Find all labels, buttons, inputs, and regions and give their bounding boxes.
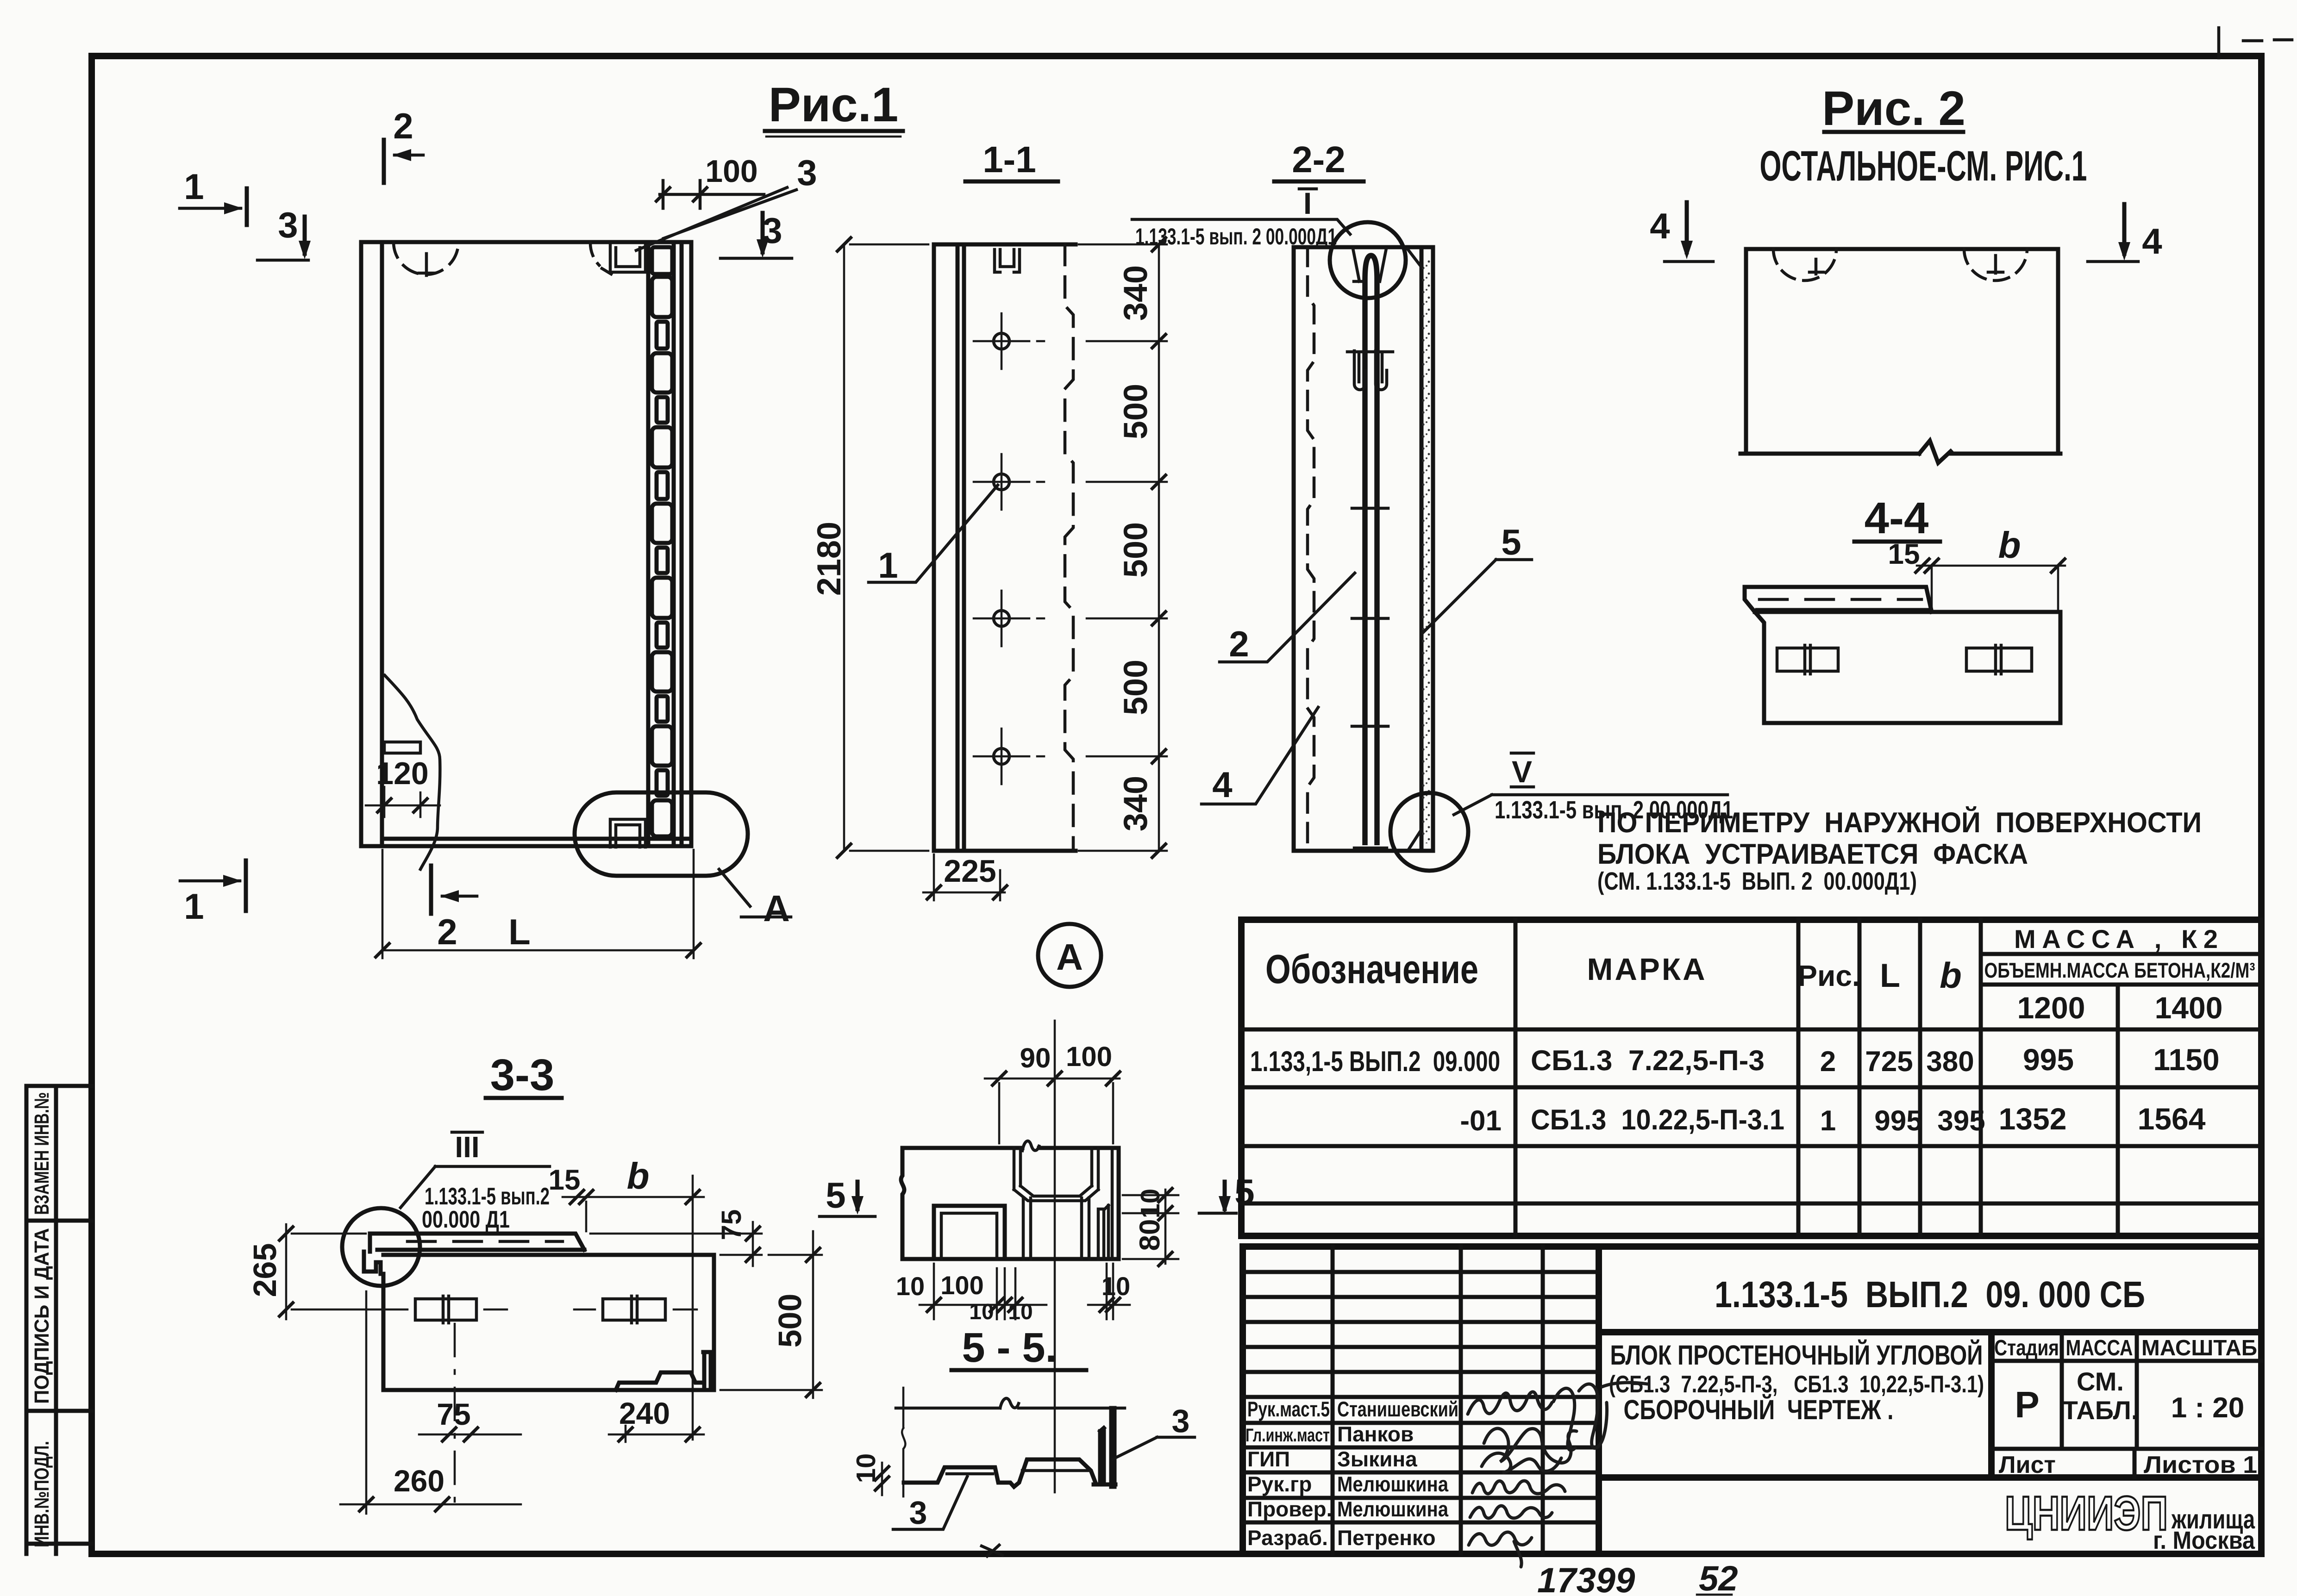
svg-text:1: 1 bbox=[184, 166, 204, 207]
svg-text:1: 1 bbox=[878, 545, 898, 586]
svg-text:3: 3 bbox=[909, 1495, 927, 1531]
svg-text:ТАБЛ.: ТАБЛ. bbox=[2062, 1396, 2139, 1425]
svg-text:500: 500 bbox=[772, 1294, 808, 1348]
svg-text:Станишевский: Станишевский bbox=[1337, 1397, 1458, 1421]
svg-text:10: 10 bbox=[896, 1272, 925, 1301]
svg-text:1.133,1-5 ВЫП.2 09.000: 1.133,1-5 ВЫП.2 09.000 bbox=[1250, 1046, 1500, 1078]
svg-text:100: 100 bbox=[1066, 1041, 1112, 1072]
svg-text:100: 100 bbox=[705, 154, 757, 189]
svg-text:Стадия: Стадия bbox=[1994, 1336, 2059, 1360]
svg-text:Мелюшкина: Мелюшкина bbox=[1337, 1497, 1448, 1521]
svg-text:Провер.: Провер. bbox=[1247, 1497, 1332, 1521]
svg-text:2-2: 2-2 bbox=[1292, 139, 1346, 180]
svg-text:3: 3 bbox=[1172, 1403, 1190, 1439]
svg-text:2: 2 bbox=[437, 911, 457, 952]
svg-text:15: 15 bbox=[1888, 538, 1920, 570]
svg-text:380: 380 bbox=[1926, 1046, 1974, 1078]
svg-text:Петренко: Петренко bbox=[1337, 1526, 1436, 1550]
svg-text:225: 225 bbox=[944, 854, 996, 889]
svg-text:4: 4 bbox=[1212, 764, 1232, 805]
svg-text:1400: 1400 bbox=[2155, 991, 2223, 1025]
svg-text:L: L bbox=[508, 911, 531, 952]
svg-text:ИНВ.№ПОДЛ.: ИНВ.№ПОДЛ. bbox=[31, 1441, 53, 1547]
svg-text:Рук.гр: Рук.гр bbox=[1247, 1472, 1312, 1496]
svg-text:90: 90 bbox=[1020, 1042, 1051, 1073]
svg-text:1: 1 bbox=[1820, 1105, 1836, 1137]
svg-text:Панков: Панков bbox=[1337, 1422, 1414, 1446]
svg-text:СМ.: СМ. bbox=[2077, 1367, 2124, 1396]
svg-text:2: 2 bbox=[1229, 623, 1249, 664]
svg-text:15: 15 bbox=[549, 1164, 581, 1196]
svg-text:5 - 5.: 5 - 5. bbox=[962, 1325, 1057, 1371]
svg-text:1-1: 1-1 bbox=[983, 139, 1036, 180]
svg-text:Рис. 2: Рис. 2 bbox=[1822, 81, 1965, 136]
svg-text:2: 2 bbox=[1820, 1046, 1836, 1078]
svg-text:А: А bbox=[1056, 936, 1083, 978]
svg-text:340: 340 bbox=[1117, 265, 1154, 321]
svg-text:Мелюшкина: Мелюшкина bbox=[1337, 1472, 1448, 1496]
svg-text:Зыкина: Зыкина bbox=[1337, 1447, 1417, 1471]
svg-text:Лист: Лист bbox=[1999, 1452, 2056, 1478]
svg-text:Рис.: Рис. bbox=[1797, 959, 1860, 992]
svg-text:10: 10 bbox=[1008, 1300, 1033, 1324]
svg-text:725: 725 bbox=[1865, 1046, 1913, 1078]
svg-text:-01: -01 bbox=[1460, 1105, 1502, 1137]
svg-text:4: 4 bbox=[1650, 206, 1670, 246]
svg-text:1: 1 bbox=[184, 886, 204, 927]
svg-text:2: 2 bbox=[393, 106, 413, 146]
svg-text:500: 500 bbox=[1117, 660, 1154, 715]
svg-text:МАССА , К2: МАССА , К2 bbox=[2014, 924, 2218, 954]
svg-text:1200: 1200 bbox=[2017, 991, 2085, 1025]
svg-text:b: b bbox=[1940, 955, 1962, 996]
svg-text:52: 52 bbox=[1699, 1559, 1738, 1596]
svg-text:260: 260 bbox=[394, 1464, 444, 1498]
svg-text:(СМ. 1.133.1-5 ВЫП. 2 00.000: (СМ. 1.133.1-5 ВЫП. 2 00.000Д1) bbox=[1597, 867, 1917, 895]
svg-text:500: 500 bbox=[1117, 522, 1154, 578]
svg-text:240: 240 bbox=[619, 1396, 670, 1430]
svg-text:3-3: 3-3 bbox=[490, 1050, 555, 1100]
svg-text:100: 100 bbox=[940, 1271, 983, 1300]
svg-text:ПОДПИСЬ И ДАТА: ПОДПИСЬ И ДАТА bbox=[31, 1228, 53, 1404]
svg-text:ОСТАЛЬНОЕ-СМ. РИС.1: ОСТАЛЬНОЕ-СМ. РИС.1 bbox=[1760, 143, 2087, 190]
svg-text:b: b bbox=[627, 1155, 650, 1197]
svg-text:2180: 2180 bbox=[811, 522, 848, 596]
svg-text:265: 265 bbox=[247, 1243, 283, 1297]
svg-text:3: 3 bbox=[278, 205, 298, 245]
svg-text:БЛОК ПРОСТЕНОЧНЫЙ УГЛОВОЙ: БЛОК ПРОСТЕНОЧНЫЙ УГЛОВОЙ bbox=[1610, 1339, 1983, 1371]
svg-text:3: 3 bbox=[797, 152, 817, 193]
svg-text:ГИП: ГИП bbox=[1247, 1447, 1290, 1471]
svg-text:Листов 1: Листов 1 bbox=[2144, 1452, 2257, 1478]
svg-text:1 : 20: 1 : 20 bbox=[2171, 1392, 2245, 1424]
svg-text:17399: 17399 bbox=[1537, 1561, 1635, 1596]
svg-text:СБ1.3 10.22,5-П-3.1: СБ1.3 10.22,5-П-3.1 bbox=[1531, 1104, 1784, 1136]
svg-text:995: 995 bbox=[2023, 1042, 2074, 1077]
svg-text:5: 5 bbox=[826, 1175, 845, 1216]
svg-text:b: b bbox=[1998, 524, 2021, 566]
svg-text:00.000 Д1: 00.000 Д1 bbox=[422, 1206, 510, 1233]
svg-text:75: 75 bbox=[437, 1397, 470, 1431]
svg-text:120: 120 bbox=[376, 756, 428, 791]
svg-text:1352: 1352 bbox=[1999, 1102, 2067, 1136]
svg-text:1150: 1150 bbox=[2153, 1042, 2219, 1077]
svg-text:1564: 1564 bbox=[2138, 1102, 2206, 1136]
svg-text:Р: Р bbox=[2015, 1384, 2039, 1425]
svg-text:10: 10 bbox=[1135, 1189, 1165, 1219]
svg-text:500: 500 bbox=[1117, 384, 1154, 439]
svg-text:СБОРОЧНЫЙ ЧЕРТЕЖ .: СБОРОЧНЫЙ ЧЕРТЕЖ . bbox=[1624, 1394, 1894, 1425]
svg-text:СБ1.3 7.22,5-П-3: СБ1.3 7.22,5-П-3 bbox=[1531, 1045, 1765, 1077]
svg-text:ЦНИИЭП: ЦНИИЭП bbox=[2005, 1487, 2168, 1540]
svg-text:г. Москва: г. Москва bbox=[2153, 1527, 2255, 1554]
svg-text:L: L bbox=[1880, 957, 1900, 994]
svg-text:4-4: 4-4 bbox=[1865, 493, 1929, 543]
svg-text:I: I bbox=[1303, 186, 1312, 220]
svg-text:Разраб.: Разраб. bbox=[1247, 1526, 1328, 1550]
svg-text:V: V bbox=[1512, 754, 1532, 789]
svg-text:340: 340 bbox=[1117, 776, 1154, 831]
svg-text:Рук.маст.5: Рук.маст.5 bbox=[1247, 1397, 1330, 1421]
svg-text:5: 5 bbox=[1501, 522, 1521, 562]
svg-text:75: 75 bbox=[716, 1209, 747, 1241]
svg-text:10: 10 bbox=[851, 1453, 881, 1484]
svg-text:А: А bbox=[763, 888, 790, 929]
svg-text:1.133.1-5 ВЫП.2 09. 000 СБ: 1.133.1-5 ВЫП.2 09. 000 СБ bbox=[1715, 1274, 2145, 1315]
svg-text:III: III bbox=[455, 1130, 479, 1164]
svg-text:МАСШТАБ: МАСШТАБ bbox=[2141, 1336, 2257, 1360]
svg-text:4: 4 bbox=[2142, 221, 2162, 262]
svg-text:ПО ПЕРИМЕТРУ НАРУЖНОЙ ПОВЕРХ: ПО ПЕРИМЕТРУ НАРУЖНОЙ ПОВЕРХНОСТИ bbox=[1597, 806, 2202, 839]
svg-text:Обозначение: Обозначение bbox=[1265, 946, 1478, 992]
svg-text:МАРКА: МАРКА bbox=[1587, 952, 1705, 987]
svg-text:БЛОКА УСТРАИВАЕТСЯ ФАСКА: БЛОКА УСТРАИВАЕТСЯ ФАСКА bbox=[1597, 838, 2028, 870]
svg-text:995: 995 bbox=[1874, 1105, 1922, 1137]
svg-text:ОБЪЕМН.МАССА БЕТОНА,К2/М³: ОБЪЕМН.МАССА БЕТОНА,К2/М³ bbox=[1984, 958, 2255, 982]
svg-text:Гл.инж.маст: Гл.инж.маст bbox=[1246, 1425, 1330, 1446]
svg-text:МАССА: МАССА bbox=[2066, 1336, 2133, 1360]
svg-text:Рис.1: Рис.1 bbox=[769, 78, 899, 132]
svg-text:80: 80 bbox=[1134, 1219, 1166, 1251]
svg-text:ВЗАМЕН ИНВ.№: ВЗАМЕН ИНВ.№ bbox=[31, 1092, 53, 1215]
svg-text:395: 395 bbox=[1937, 1105, 1985, 1137]
